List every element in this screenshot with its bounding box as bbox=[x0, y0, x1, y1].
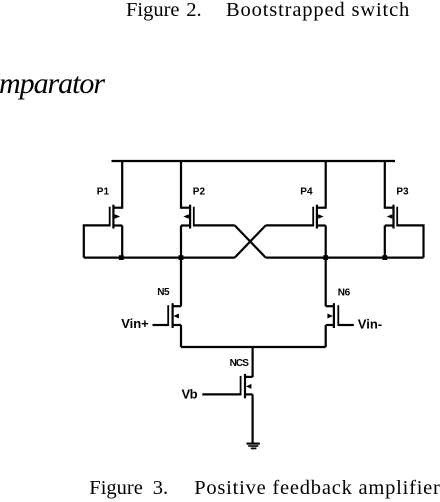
wire VDD top rail bbox=[112, 160, 396, 162]
wire N6 gate lead bbox=[338, 324, 354, 326]
svg-text:P4: P4 bbox=[300, 187, 313, 198]
label N6 bbox=[338, 288, 351, 299]
label Vin+ bbox=[121, 316, 149, 331]
transistor NCS bbox=[241, 374, 253, 398]
wire left output rail bbox=[84, 257, 235, 259]
svg-text:NCS: NCS bbox=[230, 358, 250, 369]
wire cross diagonal B (left rail to P4 gate) bbox=[235, 225, 266, 257]
caption Figure 2 bbox=[126, 0, 180, 21]
label Vin- bbox=[358, 316, 382, 331]
transistor P2 bbox=[181, 205, 194, 229]
label P3 bbox=[396, 187, 409, 198]
wire P4 gate lead bbox=[266, 224, 314, 226]
transistor N5 bbox=[168, 303, 181, 328]
wire N5 gate lead bbox=[153, 324, 169, 326]
wire P2 source down to N5 bbox=[180, 226, 182, 307]
caption Figure 3 bbox=[89, 478, 143, 499]
wire P1 gate loop bbox=[84, 225, 110, 257]
wire P2 drain vertical bbox=[180, 161, 182, 209]
wire NCS drain vertical bbox=[252, 347, 254, 377]
wire NCS source vertical bbox=[252, 394, 254, 443]
svg-text:N6: N6 bbox=[338, 288, 351, 299]
node junction dot left P1 bbox=[119, 255, 124, 260]
wire P1 drain vertical bbox=[121, 161, 123, 209]
wire N6 source vertical bbox=[325, 325, 327, 347]
svg-text:P3: P3 bbox=[396, 187, 409, 198]
wire P3 drain vertical bbox=[384, 161, 386, 209]
label NCS bbox=[230, 358, 250, 369]
svg-text:P1: P1 bbox=[97, 187, 110, 198]
transistor P1 bbox=[110, 205, 123, 229]
wire P4 drain vertical bbox=[325, 161, 327, 209]
wire P4 source down to N6 bbox=[325, 226, 327, 307]
wire cross diagonal A (P2 gate to right rail) bbox=[235, 225, 266, 257]
label P1 bbox=[97, 187, 110, 198]
svg-text:Vb: Vb bbox=[182, 387, 198, 402]
ground bbox=[247, 444, 260, 449]
transistor P4 bbox=[313, 205, 326, 229]
node junction dot left P2 bbox=[179, 255, 184, 260]
wire tail current rail bbox=[181, 346, 326, 348]
wire P1 source vertical bbox=[121, 226, 123, 258]
svg-text:P2: P2 bbox=[193, 187, 206, 198]
transistor N6 bbox=[326, 303, 339, 328]
node junction dot right P4 bbox=[323, 255, 328, 260]
wire Vb gate lead bbox=[202, 393, 240, 395]
wire P3 gate loop bbox=[397, 225, 423, 257]
node junction dot right P3 bbox=[382, 255, 387, 260]
wire right output rail bbox=[266, 257, 424, 259]
label Vb bbox=[182, 387, 198, 402]
wire P2 gate lead bbox=[194, 224, 235, 226]
svg-text:Vin-: Vin- bbox=[358, 316, 382, 331]
label N5 bbox=[157, 287, 170, 298]
heading Comparator bbox=[0, 69, 104, 99]
wire N5 source vertical bbox=[180, 325, 182, 347]
transistor P3 bbox=[385, 205, 397, 229]
label P4 bbox=[300, 187, 313, 198]
label P2 bbox=[193, 187, 206, 198]
wire P3 source vertical bbox=[384, 226, 386, 258]
svg-text:Vin+: Vin+ bbox=[121, 316, 149, 331]
svg-text:N5: N5 bbox=[157, 287, 170, 298]
